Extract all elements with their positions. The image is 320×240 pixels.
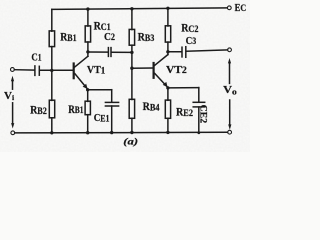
resistor RE1 [85, 101, 90, 115]
resistor RE2 [165, 100, 170, 118]
resistor RB4 [129, 99, 134, 118]
svg-text:C2: C2 [104, 31, 115, 43]
svg-text:Vo: Vo [223, 84, 237, 96]
transistor VT2 [153, 52, 168, 88]
wire emitter1 node [88, 89, 112, 91]
wire RC1 top [87, 9, 89, 26]
svg-text:EC: EC [235, 3, 247, 14]
wire RB1 bottom [51, 47, 53, 71]
wire RB2 top [51, 70, 53, 100]
svg-text:C3: C3 [186, 35, 197, 47]
svg-text:RC2: RC2 [181, 23, 199, 35]
wire RB3 bottom [131, 45, 133, 68]
wire C1 to base node [40, 69, 73, 71]
node ground CE1 [110, 131, 113, 134]
wire RE1 bottom [87, 115, 89, 133]
wire CE2 bottom [198, 107, 200, 133]
resistor RB3 [129, 29, 134, 45]
svg-text:(a): (a) [123, 137, 138, 148]
capacitor C3 [182, 47, 186, 58]
node collector1 [86, 50, 89, 53]
node base1 [50, 69, 53, 72]
node top rail RB3 [130, 7, 133, 10]
svg-text:RB4: RB4 [143, 101, 160, 113]
wire top supply rail [52, 8, 228, 9]
capacitor CE1 [105, 102, 118, 106]
wire RC2 top [167, 8, 169, 26]
svg-text:VT1: VT1 [87, 65, 106, 76]
terminal input top [11, 68, 15, 72]
svg-text:CE2: CE2 [199, 105, 209, 124]
wire collector1 to C2 [88, 51, 108, 53]
svg-text:VT2: VT2 [166, 64, 187, 76]
terminal input bottom [11, 131, 15, 135]
svg-text:RB1: RB1 [68, 104, 83, 116]
terminal EC [227, 6, 231, 10]
wire input arrow upper [12, 80, 14, 89]
wire emitter2 node [168, 87, 199, 89]
wire input to C1 [14, 69, 34, 71]
wire output arrow upper [229, 63, 231, 84]
node ground RB4 [130, 131, 133, 134]
resistor RB2 [49, 100, 54, 118]
wire RC1 bottom [87, 42, 89, 52]
wire RB4 top [131, 68, 133, 99]
transistor VT1 [73, 52, 88, 89]
wire CE1 drop [111, 90, 113, 102]
paper noise texture [0, 0, 250, 152]
wire CE2 drop [198, 88, 200, 102]
svg-text:RB1: RB1 [60, 31, 77, 43]
node top rail RC2 [166, 7, 169, 10]
node collector2 [166, 50, 169, 53]
capacitor CE2 [193, 102, 205, 107]
node emitter2 [166, 86, 169, 89]
wire RE2 top [167, 88, 169, 100]
resistor RC2 [165, 26, 170, 42]
node base2 [130, 67, 133, 70]
node ground RB2 [50, 131, 53, 134]
wire RE1 top [87, 90, 89, 102]
svg-text:RB3: RB3 [138, 31, 155, 43]
wire CE1 bottom [111, 106, 113, 133]
wire RC2 bottom [167, 42, 169, 52]
resistor RC1 [85, 26, 90, 42]
terminal output top [228, 48, 232, 52]
svg-text:CE1: CE1 [94, 112, 110, 124]
node C2-RB3 [130, 51, 133, 54]
wire RE2 bottom [167, 118, 169, 132]
wire input arrow lower [12, 103, 14, 124]
capacitor C1 [35, 66, 39, 76]
terminal output bottom [228, 130, 232, 134]
wire bottom ground rail [15, 131, 228, 134]
svg-text:RE2: RE2 [176, 107, 193, 119]
wire output arrow lower [229, 100, 231, 124]
node ground RE2 [166, 131, 169, 134]
wire RB1 top [51, 9, 53, 31]
wire C3 to output [187, 50, 228, 51]
svg-text:RB2: RB2 [30, 104, 47, 116]
wire RB4 bottom [131, 118, 133, 132]
wire base2 [132, 67, 153, 69]
node top rail RC1 [86, 7, 89, 10]
capacitor C2 [108, 48, 111, 57]
node ground RE1 [86, 131, 89, 134]
wire collector2 to C3 [168, 51, 181, 53]
wire C2 to RB3 column [112, 51, 132, 53]
resistor RB1 [49, 31, 54, 47]
wire RB2 bottom [51, 118, 53, 133]
node ground CE2 [197, 131, 200, 134]
wire RB3 top [131, 9, 133, 30]
svg-text:C1: C1 [31, 51, 41, 63]
node emitter1 [86, 88, 89, 91]
